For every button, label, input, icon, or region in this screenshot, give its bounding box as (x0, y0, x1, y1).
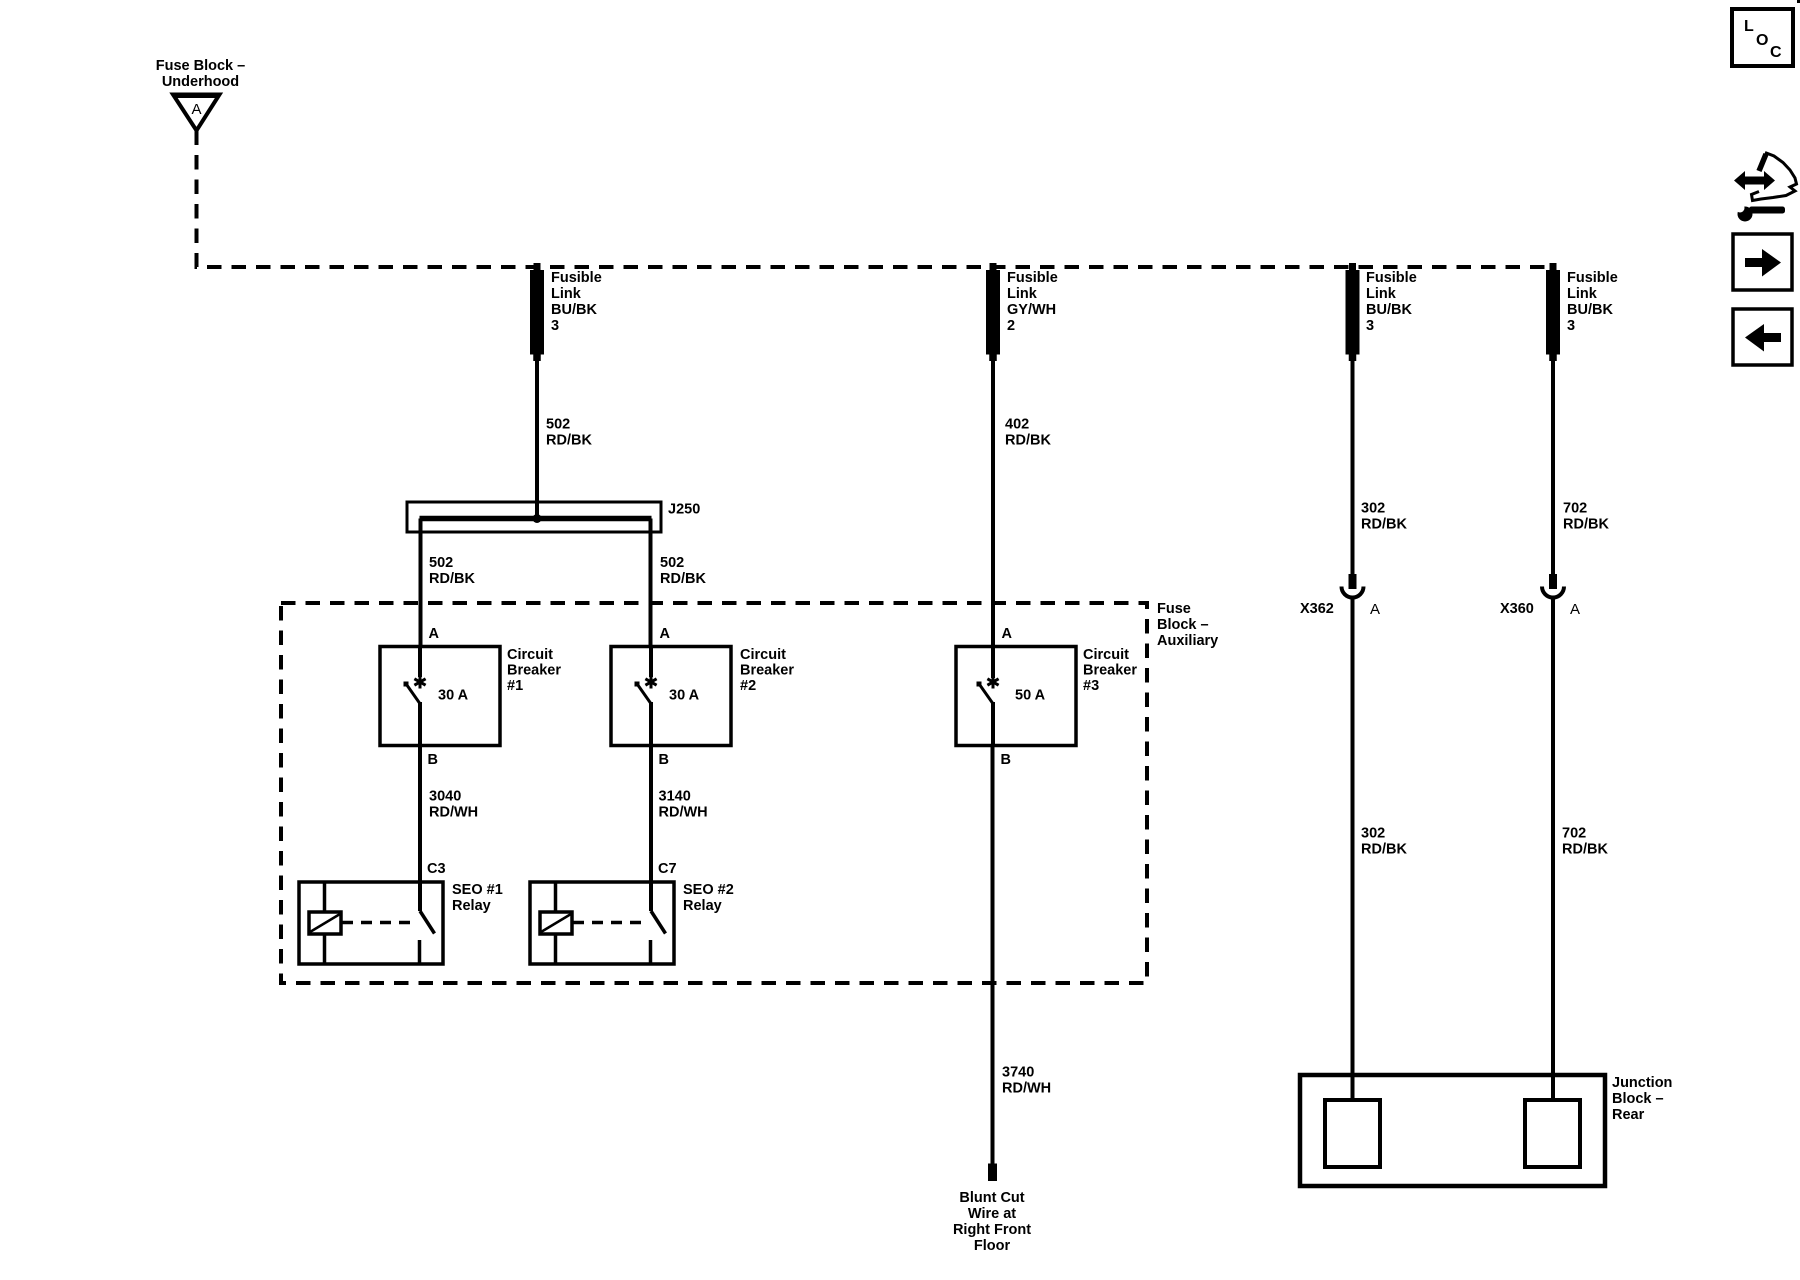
svg-text:Link: Link (551, 286, 582, 302)
svg-text:RD/BK: RD/BK (1361, 517, 1407, 533)
svg-text:C7: C7 (658, 861, 677, 877)
wire 702 upper (1551, 360, 1555, 575)
wire 3040 RD/WH (418, 746, 422, 911)
svg-text:O: O (1756, 32, 1768, 49)
svg-text:302: 302 (1361, 826, 1385, 842)
svg-text:3: 3 (1366, 318, 1374, 334)
svg-text:A: A (1370, 601, 1380, 618)
svg-text:Fuse: Fuse (1157, 601, 1191, 617)
svg-text:Fusible: Fusible (1007, 270, 1058, 286)
wire 502 from link 1 to J250 (535, 360, 539, 519)
svg-text:#1: #1 (507, 678, 523, 694)
svg-text:Fusible: Fusible (1567, 270, 1618, 286)
wire 502 right drop from J250 (649, 519, 653, 648)
circuit breaker 1 label (507, 647, 561, 694)
fusible link 1 label (551, 270, 602, 334)
fusible link 4 label (1567, 270, 1618, 334)
SEO #1 relay (299, 882, 443, 964)
fuse block underhood label (156, 58, 245, 90)
svg-text:Rear: Rear (1612, 1107, 1645, 1123)
fusible link 4 BU/BK (1546, 263, 1560, 361)
svg-text:Breaker: Breaker (740, 663, 794, 679)
fuse block auxiliary label (1157, 601, 1218, 649)
svg-text:302: 302 (1361, 501, 1385, 517)
label 302 RD/BK lower (1361, 826, 1407, 858)
fusible link 1 BU/BK (530, 263, 544, 361)
svg-text:3040: 3040 (429, 789, 461, 805)
wire 702 lower to junction block (1551, 598, 1555, 1100)
svg-text:3: 3 (1567, 318, 1575, 334)
forward arrow button (1733, 234, 1792, 290)
corner mark (1797, 0, 1800, 3)
label 3140 RD/WH (659, 789, 708, 821)
svg-text:Link: Link (1366, 286, 1397, 302)
svg-text:Breaker: Breaker (1083, 663, 1137, 679)
svg-text:Link: Link (1007, 286, 1038, 302)
svg-text:RD/BK: RD/BK (1361, 842, 1407, 858)
splice pack J250 (407, 502, 661, 532)
svg-text:RD/BK: RD/BK (1562, 842, 1608, 858)
svg-text:BU/BK: BU/BK (551, 302, 597, 318)
circuit breaker 2 label (740, 647, 794, 694)
svg-text:702: 702 (1562, 826, 1586, 842)
LOC icon (1732, 9, 1793, 66)
svg-text:RD/WH: RD/WH (429, 805, 478, 821)
svg-text:Circuit: Circuit (1083, 647, 1129, 663)
svg-text:A: A (660, 626, 671, 642)
svg-text:Relay: Relay (683, 898, 722, 914)
wire 502 left drop from J250 (419, 519, 423, 648)
wire 3740 RD/WH (991, 746, 995, 1164)
svg-text:A: A (1002, 626, 1013, 642)
SEO #2 relay (530, 882, 674, 964)
circuit breaker 3 label (1083, 647, 1137, 694)
svg-text:BU/BK: BU/BK (1567, 302, 1613, 318)
label 402 RD/BK (1005, 417, 1051, 449)
svg-text:BU/BK: BU/BK (1366, 302, 1412, 318)
svg-text:502: 502 (546, 417, 570, 433)
junction block rear label (1612, 1075, 1672, 1123)
svg-text:Block –: Block – (1612, 1091, 1664, 1107)
label 3040 RD/WH (429, 789, 478, 821)
svg-text:Link: Link (1567, 286, 1598, 302)
svg-text:Auxiliary: Auxiliary (1157, 633, 1218, 649)
fusible link 2 label (1007, 270, 1058, 334)
svg-text:Fusible: Fusible (1366, 270, 1417, 286)
svg-text:RD/BK: RD/BK (660, 571, 706, 587)
svg-text:C3: C3 (427, 861, 446, 877)
svg-text:402: 402 (1005, 417, 1029, 433)
svg-text:30 A: 30 A (669, 688, 700, 704)
wire 302 upper (1351, 360, 1355, 575)
svg-text:A: A (429, 626, 440, 642)
svg-text:#3: #3 (1083, 678, 1099, 694)
wire 402 from link 2 to circuit breaker 3 (991, 360, 995, 678)
svg-text:Relay: Relay (452, 898, 491, 914)
service icon outline arrow (1752, 153, 1797, 201)
svg-text:L: L (1744, 18, 1754, 35)
circuit breaker 3 (956, 647, 1076, 747)
blunt cut end (988, 1164, 997, 1182)
wire 3140 RD/WH (649, 746, 653, 911)
svg-text:C: C (1770, 44, 1782, 61)
svg-text:A: A (1570, 601, 1580, 618)
junction block rear (1300, 1075, 1605, 1186)
label 302 RD/BK upper (1361, 501, 1407, 533)
svg-text:3740: 3740 (1002, 1065, 1034, 1081)
svg-text:502: 502 (429, 555, 453, 571)
svg-text:Junction: Junction (1612, 1075, 1672, 1091)
svg-text:SEO #1: SEO #1 (452, 882, 503, 898)
svg-text:#2: #2 (740, 678, 756, 694)
connector A triangle (fuse block underhood) (173, 95, 220, 131)
SEO #2 relay label (683, 882, 734, 914)
fuse block auxiliary dashed box (281, 603, 1147, 983)
svg-text:RD/BK: RD/BK (429, 571, 475, 587)
svg-text:Breaker: Breaker (507, 663, 561, 679)
back arrow button (1733, 309, 1792, 365)
service icon double arrow (1734, 171, 1775, 190)
SEO #1 relay label (452, 882, 503, 914)
connector X362 (1342, 574, 1364, 598)
svg-text:Fuse Block –: Fuse Block – (156, 58, 245, 74)
svg-text:502: 502 (660, 555, 684, 571)
svg-text:RD/WH: RD/WH (1002, 1081, 1051, 1097)
svg-text:Fusible: Fusible (551, 270, 602, 286)
svg-text:702: 702 (1563, 501, 1587, 517)
svg-text:RD/BK: RD/BK (1563, 517, 1609, 533)
dashed feed wire from fuse block underhood (197, 131, 1554, 268)
service icon wrench (1736, 204, 1786, 222)
svg-text:Block –: Block – (1157, 617, 1209, 633)
svg-text:A: A (191, 101, 201, 118)
blunt cut label (953, 1190, 1031, 1254)
svg-text:RD/BK: RD/BK (546, 433, 592, 449)
svg-text:3140: 3140 (659, 789, 691, 805)
svg-text:J250: J250 (668, 502, 700, 518)
fusible link 2 GY/WH (986, 263, 1000, 361)
svg-text:X362: X362 (1300, 601, 1334, 617)
fusible link 3 BU/BK (1346, 263, 1360, 361)
label 502 RD/BK top (546, 417, 592, 449)
svg-text:B: B (428, 752, 438, 768)
svg-text:3: 3 (551, 318, 559, 334)
label 502 RD/BK right (660, 555, 706, 587)
label 3740 RD/WH (1002, 1065, 1051, 1097)
label 502 RD/BK left (429, 555, 475, 587)
svg-text:Right Front: Right Front (953, 1222, 1031, 1238)
circuit breaker 1 (380, 647, 500, 747)
label 702 RD/BK upper (1563, 501, 1609, 533)
svg-text:X360: X360 (1500, 601, 1534, 617)
svg-text:Wire at: Wire at (968, 1206, 1016, 1222)
svg-text:Underhood: Underhood (162, 74, 239, 90)
wire 302 lower to junction block (1351, 598, 1355, 1100)
svg-text:SEO #2: SEO #2 (683, 882, 734, 898)
svg-text:2: 2 (1007, 318, 1015, 334)
label 702 RD/BK lower (1562, 826, 1608, 858)
connector X360 (1542, 574, 1564, 598)
svg-text:Floor: Floor (974, 1238, 1011, 1254)
fusible link 3 label (1366, 270, 1417, 334)
svg-text:RD/WH: RD/WH (659, 805, 708, 821)
svg-text:50 A: 50 A (1015, 688, 1046, 704)
circuit breaker 2 (611, 647, 731, 747)
svg-text:30 A: 30 A (438, 688, 469, 704)
svg-text:Circuit: Circuit (740, 647, 786, 663)
svg-text:B: B (659, 752, 669, 768)
svg-text:GY/WH: GY/WH (1007, 302, 1056, 318)
svg-text:RD/BK: RD/BK (1005, 433, 1051, 449)
svg-text:Blunt Cut: Blunt Cut (959, 1190, 1024, 1206)
svg-text:Circuit: Circuit (507, 647, 553, 663)
svg-text:B: B (1001, 752, 1011, 768)
